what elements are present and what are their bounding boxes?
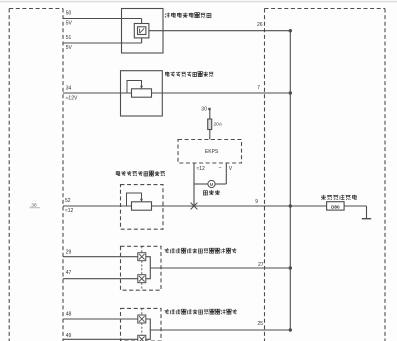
svg-text:29: 29 xyxy=(66,250,72,256)
svg-text:49: 49 xyxy=(66,333,72,339)
svg-text:−: − xyxy=(219,165,222,171)
svg-text:30: 30 xyxy=(201,106,207,112)
svg-text:51: 51 xyxy=(66,35,72,41)
svg-text:20A: 20A xyxy=(214,122,223,128)
svg-text:EKPS: EKPS xyxy=(205,149,219,155)
svg-text:50: 50 xyxy=(66,11,72,17)
svg-text:27: 27 xyxy=(258,262,264,268)
svg-text:48: 48 xyxy=(66,312,72,318)
svg-text:5V: 5V xyxy=(66,45,73,51)
svg-text:≈12V: ≈12V xyxy=(66,96,78,102)
svg-text:52: 52 xyxy=(65,198,71,204)
svg-text:25: 25 xyxy=(257,321,263,327)
svg-text:M: M xyxy=(210,182,214,187)
svg-text:7: 7 xyxy=(257,85,260,91)
svg-text:≈12: ≈12 xyxy=(197,166,206,172)
svg-text:9: 9 xyxy=(255,199,258,205)
svg-text:47: 47 xyxy=(66,270,72,276)
svg-text:≈12: ≈12 xyxy=(65,208,74,214)
svg-text:26: 26 xyxy=(257,22,263,28)
svg-text:34: 34 xyxy=(66,86,72,92)
svg-text:D80: D80 xyxy=(331,204,340,209)
svg-text:5V: 5V xyxy=(66,21,73,27)
